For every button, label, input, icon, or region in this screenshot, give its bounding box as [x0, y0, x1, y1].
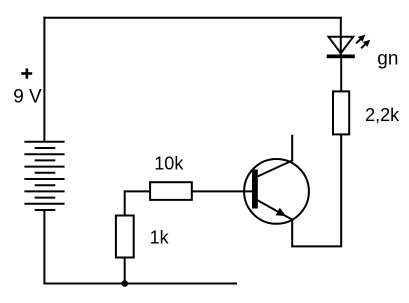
LED D1 anode triangle	[329, 37, 354, 53]
wire: left vertical, battery - down to bottom rail	[43, 210, 45, 285]
wire: bottom rail	[43, 283, 237, 285]
svg-text:2,2k: 2,2k	[365, 105, 400, 125]
LED D1 cathode bar	[327, 55, 355, 59]
transistor Q1 base bar	[252, 170, 258, 209]
wire: left vertical, top rail down to battery +	[43, 17, 45, 143]
battery B1 (9V)	[24, 142, 64, 210]
label: + (battery positive)	[21, 68, 32, 78]
wire: top rail down to LED anode	[340, 17, 342, 56]
resistor 1k body	[116, 216, 134, 258]
svg-text:10k: 10k	[154, 154, 184, 174]
wire: 1k top lead and corner to 10k left lead	[125, 191, 150, 215]
LED D1 light arrow 1	[356, 35, 365, 44]
resistor 10k body	[150, 182, 192, 200]
svg-text:9 V: 9 V	[13, 86, 42, 107]
wire: top rail (battery + to LED)	[43, 17, 341, 19]
transistor Q1 body circle	[244, 159, 309, 224]
wire: collector stub upward	[291, 135, 293, 162]
svg-text:1k: 1k	[150, 228, 170, 248]
wire: base wire 10k to transistor	[192, 190, 253, 192]
transistor Q1 emitter lead diagonal	[258, 200, 293, 219]
wire: LED cathode to 2,2k top	[340, 58, 342, 91]
resistor 2,2k body	[333, 91, 349, 134]
wire: 1k bottom lead	[124, 258, 126, 284]
LED D1 light arrow 2	[361, 40, 370, 49]
transistor Q1 emitter arrowhead	[276, 208, 286, 216]
transistor Q1 collector lead diagonal	[258, 161, 293, 177]
junction: node 1k / bottom rail	[122, 280, 129, 287]
wire: emitter down, right and up to 2,2k bottom (U shape)	[292, 135, 341, 246]
svg-text:gn: gn	[377, 48, 398, 69]
